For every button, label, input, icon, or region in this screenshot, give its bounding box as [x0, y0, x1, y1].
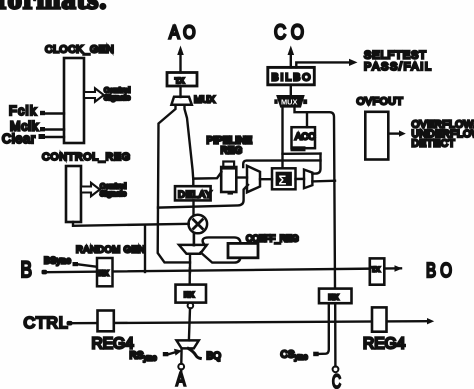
- svg-text:REG4: REG4: [92, 336, 135, 353]
- port BSync: [44, 256, 97, 267]
- wire: arrow up to CO: [288, 46, 295, 68]
- svg-text:DETECT: DETECT: [412, 139, 456, 150]
- svg-text:C: C: [332, 371, 341, 389]
- wire: center column B line to RX: [188, 269, 191, 285]
- wire TX to mux: [179, 86, 181, 97]
- svg-text:A: A: [176, 369, 186, 389]
- wire DELAY to multiplier: [192, 200, 194, 215]
- port CTRL: [24, 315, 73, 332]
- wire driver to right rail: [312, 179, 335, 182]
- wire: arrow up to AO: [177, 46, 184, 73]
- svg-text:B O: B O: [426, 260, 452, 282]
- label Control Signals (control reg): [100, 182, 126, 199]
- wire: CTRL bus: [73, 321, 428, 323]
- wire: arrow to BO: [395, 265, 403, 271]
- svg-text:RX: RX: [329, 292, 339, 301]
- wire: selftest tap: [296, 59, 357, 68]
- wire: junction to pipeline reg: [193, 172, 221, 179]
- svg-text:Signals: Signals: [104, 93, 130, 102]
- wire: CO mux left branch down to sigma top: [281, 107, 283, 169]
- svg-text:ACC: ACC: [295, 132, 315, 143]
- port CSync: [281, 303, 329, 361]
- label SELFTEST PASS/FAIL: [364, 50, 433, 74]
- wire mux to sigma: [260, 178, 272, 180]
- wire sigma out: [296, 178, 305, 181]
- port B: [21, 257, 48, 282]
- adder SIGMA: [272, 168, 296, 189]
- wire: BQ hook: [188, 348, 200, 358]
- svg-text:COEFF_REG: COEFF_REG: [246, 234, 299, 244]
- mux (pipeline output mux): [247, 166, 260, 193]
- svg-text:DELAY: DELAY: [178, 190, 212, 201]
- wire: CONTROL_REG bottom to multiplier left input: [73, 222, 189, 226]
- svg-text:CONTROL_REG: CONTROL_REG: [42, 151, 131, 163]
- wire pipeline reg to mux: [236, 176, 247, 178]
- mux (coefficient select): [179, 245, 207, 254]
- wire: C column down: [334, 303, 337, 366]
- wire: ACC input drop: [306, 112, 308, 127]
- register REG4 (right): [363, 307, 406, 352]
- mux (CO mux, dark): [274, 96, 307, 107]
- wire: A mux leg to port A: [180, 348, 183, 363]
- wire: COEFF_REG loop: [201, 237, 241, 262]
- block CLOCK_GEN: [45, 44, 114, 144]
- svg-text:BQ: BQ: [207, 351, 222, 362]
- svg-text:BILBO: BILBO: [272, 72, 313, 84]
- wire: rail tap to coeff mux (horizontal mid line): [158, 185, 248, 208]
- pipeline register: [221, 162, 236, 195]
- mux (A input mux): [177, 340, 199, 348]
- svg-text:MUX: MUX: [194, 95, 216, 106]
- svg-text:CSync: CSync: [281, 350, 308, 362]
- block ACC: [291, 127, 316, 151]
- port RSync: [130, 349, 183, 363]
- block COEFF_REG: [228, 234, 299, 258]
- wire CO mux to BILBO: [290, 85, 292, 96]
- multiplier: [189, 215, 208, 234]
- svg-text:OVFOUT: OVFOUT: [357, 96, 404, 108]
- svg-text:A O: A O: [169, 23, 196, 43]
- svg-text:SELFTEST: SELFTEST: [364, 50, 427, 62]
- block BILBO: [268, 67, 315, 84]
- port Fclk: [9, 104, 64, 118]
- block OVFOUT: [357, 96, 404, 160]
- wire: coeff mux left leg down to B line: [189, 254, 191, 272]
- svg-text:C O: C O: [274, 21, 304, 44]
- port Mclk: [10, 120, 64, 134]
- svg-text:REG4: REG4: [363, 336, 406, 353]
- svg-text:RX: RX: [184, 290, 194, 299]
- wire: overflow arrow: [388, 130, 406, 136]
- label OVERFLOW/UNDERFLOW DETECT: [412, 120, 474, 150]
- node: A bubble: [178, 364, 184, 370]
- block RX (B input): [97, 258, 113, 286]
- block CONTROL_REG: [42, 151, 131, 222]
- svg-text:MUX: MUX: [281, 98, 297, 107]
- block RX (C column): [319, 289, 352, 304]
- wire: vertical drop to B line: [144, 226, 146, 272]
- mux (A output mux): [171, 95, 215, 106]
- wire: down to A mux: [189, 308, 190, 340]
- svg-text:Clear: Clear: [2, 132, 36, 146]
- fat arrow: CLOCK_GEN control signals: [84, 88, 104, 101]
- wire: sigma feed line: [243, 160, 320, 167]
- wire: feedback elbow into driver: [312, 154, 320, 174]
- wire: mux left branch down left rail to small mux column: [158, 105, 190, 263]
- svg-text:TX: TX: [175, 76, 184, 85]
- svg-text:B: B: [21, 257, 33, 282]
- label PIPELINE REG: [207, 136, 253, 157]
- block TX (B output): [370, 258, 385, 284]
- port A: [176, 369, 186, 389]
- svg-text:CTRL: CTRL: [24, 315, 69, 332]
- svg-text:TX: TX: [371, 267, 380, 274]
- driver (sigma output buffer): [304, 170, 312, 189]
- block TX (A side): [167, 73, 197, 87]
- port Clear: [2, 132, 64, 146]
- svg-text:Fclk: Fclk: [9, 104, 38, 118]
- wire: junction down into DELAY: [192, 179, 194, 187]
- wire: B bus line to BO: [47, 268, 401, 272]
- label Control Signals (clock): [104, 86, 130, 103]
- svg-text:RANDOM GEN: RANDOM GEN: [76, 245, 145, 256]
- register REG4 (left): [92, 311, 135, 353]
- svg-text:BSync: BSync: [44, 256, 71, 266]
- block DELAY: [175, 186, 212, 200]
- svg-text:Signals: Signals: [100, 189, 126, 198]
- svg-text:RX: RX: [99, 271, 109, 278]
- svg-text:formats.: formats.: [0, 0, 107, 16]
- wire: CO mux right branch to right rail: [295, 107, 336, 289]
- block RX (A column): [176, 285, 207, 303]
- svg-text:CLOCK_GEN: CLOCK_GEN: [45, 44, 114, 56]
- wire: mux right branch down to pipeline junction: [185, 105, 194, 179]
- svg-text:PASS/FAIL: PASS/FAIL: [364, 61, 433, 73]
- svg-text:REG: REG: [221, 146, 243, 157]
- node: C bubble: [333, 366, 339, 372]
- wire multiplier to coeff mux: [193, 233, 196, 245]
- fat arrow: CONTROL_REG control signals: [81, 183, 100, 196]
- node: rx output bubble: [188, 303, 194, 309]
- wire: ACC output line: [283, 152, 321, 155]
- svg-text:Σ: Σ: [279, 173, 287, 188]
